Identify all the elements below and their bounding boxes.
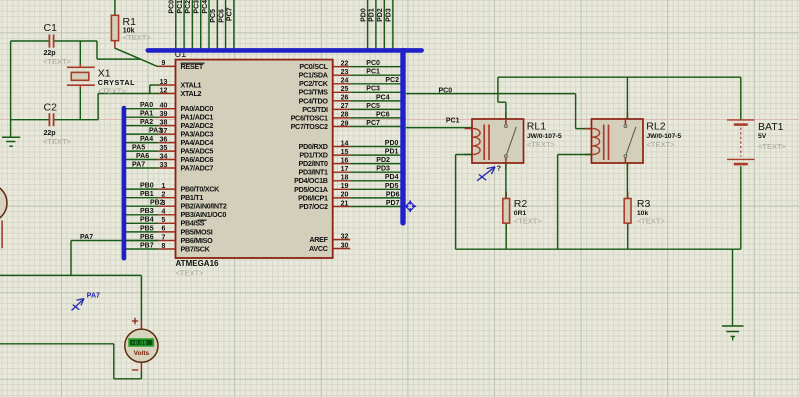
svg-text:BAT1: BAT1: [758, 121, 784, 133]
svg-text:14: 14: [341, 140, 349, 147]
svg-text:21: 21: [341, 200, 349, 207]
svg-text:29: 29: [341, 120, 349, 127]
microcontroller U1 ATMEGA16 body: [176, 60, 333, 258]
svg-text:PA4: PA4: [140, 136, 153, 143]
pin stubs (red) of RL1 and RL2: [465, 113, 628, 231]
svg-text:ATMEGA16: ATMEGA16: [176, 259, 220, 268]
svg-text:23: 23: [341, 69, 349, 76]
svg-text:PA7: PA7: [80, 234, 93, 241]
svg-text:30: 30: [341, 242, 349, 249]
capacitor C2: [49, 113, 53, 126]
svg-text:R3: R3: [637, 198, 651, 210]
wire R3 bottom to ground rail: [627, 223, 629, 249]
wires: PD0-PD7 from U1 to right bus: [350, 147, 403, 207]
svg-text:PB4: PB4: [140, 217, 154, 224]
svg-text:22p: 22p: [44, 130, 56, 137]
bus: horizontal port bus at top of U1: [148, 48, 422, 53]
svg-text:32: 32: [341, 233, 349, 240]
net labels PC0-PC7 (chip side): [366, 60, 399, 127]
wire net RESET/C1 top: [11, 41, 141, 59]
svg-text:PB5: PB5: [140, 225, 154, 232]
svg-text:1: 1: [162, 183, 166, 190]
svg-text:PC4: PC4: [202, 0, 209, 14]
wire ground stem (right): [732, 249, 734, 325]
overline for PB4/SS pin name: [198, 219, 207, 221]
svg-text:7: 7: [162, 234, 166, 241]
wire left vertical rail to ground: [10, 41, 12, 137]
svg-text:19: 19: [341, 183, 349, 190]
svg-text:Volts: Volts: [134, 350, 150, 357]
pin names: U1 left side: [181, 62, 227, 254]
voltmeter + - marks: [132, 318, 138, 370]
wire R2 bottom to ground rail: [505, 223, 507, 249]
svg-text:PD4: PD4: [385, 174, 399, 181]
wire voltmeter + lead from left edge: [0, 275, 141, 321]
wire cropped meter lead: [1, 220, 3, 248]
ground (left): [2, 137, 20, 146]
svg-text:<TEXT>: <TEXT>: [43, 137, 72, 146]
wires: PB0-PB7 from left bus to U1: [124, 189, 158, 249]
wire RL1 coil return to ground rail: [456, 155, 472, 250]
svg-text:15: 15: [341, 149, 349, 156]
svg-text:PC0: PC0: [439, 87, 453, 94]
svg-text:RL1: RL1: [527, 121, 546, 133]
wire net XTAL2/C2: [11, 94, 159, 120]
svg-text:<TEXT>: <TEXT>: [43, 57, 72, 66]
svg-text:PC2: PC2: [385, 77, 399, 84]
wire RL2 coil return to ground rail: [558, 155, 592, 250]
svg-text:PC1: PC1: [366, 69, 380, 76]
svg-text:PA6: PA6: [136, 153, 149, 160]
svg-text:<TEXT>: <TEXT>: [514, 216, 543, 225]
svg-text:13: 13: [160, 79, 168, 86]
svg-text:PC3: PC3: [194, 0, 201, 14]
wire diagonal R1 to RESET pin 9: [114, 48, 158, 66]
svg-text:27: 27: [341, 103, 349, 110]
svg-text:PA7: PA7: [87, 293, 100, 300]
wire RL1 switch to R2: [505, 163, 507, 199]
svg-text:<TEXT>: <TEXT>: [647, 140, 676, 149]
relay RL1 body: [472, 119, 524, 163]
wire R1 top lead: [114, 0, 116, 15]
pin numbers: U1 right side: [341, 61, 349, 250]
relay RL2 switch: [624, 119, 636, 163]
voltmeter terminal stubs: [140, 321, 142, 371]
relay RL1 switch: [505, 119, 517, 163]
wires: PC0-PC7 from U1 to right bus: [350, 67, 403, 127]
capacitor C1: [49, 35, 53, 48]
svg-text:PC0: PC0: [366, 60, 380, 67]
voltage probe arrow (?) at RL1: [477, 167, 495, 181]
wire bottom ground rail: [456, 248, 741, 250]
svg-text:36: 36: [160, 136, 168, 143]
svg-text:PC1: PC1: [177, 0, 184, 14]
svg-text:?: ?: [497, 164, 502, 173]
relay RL2 body: [592, 119, 644, 163]
svg-text:<TEXT>: <TEXT>: [176, 269, 205, 278]
svg-text:PD1: PD1: [385, 148, 399, 155]
svg-text:40: 40: [160, 103, 168, 110]
svg-text:12: 12: [160, 87, 168, 94]
wire RL2 common pin drop: [626, 77, 628, 119]
pins: U1 left side pin stubs: [158, 66, 175, 249]
svg-text:PD3: PD3: [376, 166, 390, 173]
svg-text:PD3: PD3: [386, 8, 393, 22]
svg-text:PC7: PC7: [227, 7, 234, 21]
svg-text:PC0: PC0: [169, 0, 176, 14]
svg-text:39: 39: [160, 111, 168, 118]
wire voltmeter - lead to left edge: [0, 344, 141, 379]
svg-text:8: 8: [162, 243, 166, 250]
resistor R3: [624, 199, 631, 224]
svg-text:PD0: PD0: [385, 140, 399, 147]
voltmeter LCD display: [128, 338, 154, 347]
svg-text:JW/0-107-5: JW/0-107-5: [527, 133, 562, 140]
svg-text:24: 24: [341, 78, 349, 85]
wire crystal bottom lead: [79, 89, 81, 120]
wire net PC0 from bus to RL2 coil: [406, 94, 592, 129]
wires: PD0-PD3 bus entries at top: [368, 0, 393, 50]
crystal X1: [67, 64, 95, 89]
resistor R1: [111, 15, 118, 40]
svg-text:PD1: PD1: [369, 8, 376, 22]
wire RL2 switch to R3: [626, 163, 628, 199]
svg-text:RL2: RL2: [646, 121, 665, 133]
wires: PA0-PA7 from left bus to U1: [124, 109, 158, 168]
svg-text:PA0: PA0: [140, 102, 153, 109]
voltmeter body: [125, 329, 158, 362]
svg-text:JW/0-107-5: JW/0-107-5: [647, 133, 682, 140]
svg-text:AREF: AREF: [309, 235, 328, 244]
wire XTAL1 branch: [150, 85, 159, 94]
net labels PA0-PA7: [132, 102, 162, 168]
svg-text:PB3: PB3: [140, 208, 154, 215]
svg-text:PC5: PC5: [366, 103, 380, 110]
svg-text:18: 18: [341, 175, 349, 182]
svg-text:26: 26: [341, 95, 349, 102]
svg-text:17: 17: [341, 166, 349, 173]
wire net PA7 from PB6 pin row to voltmeter: [71, 241, 158, 276]
svg-text:PC5: PC5: [210, 9, 217, 23]
svg-text:<TEXT>: <TEXT>: [637, 216, 666, 225]
bus: right vertical bus: [400, 50, 405, 222]
svg-text:PB7/SCK: PB7/SCK: [181, 244, 211, 253]
svg-text:PA1: PA1: [140, 111, 153, 118]
svg-text:PD6: PD6: [386, 191, 400, 198]
bus origin diamond marker: [404, 200, 416, 212]
relay RL1 coil: [473, 125, 489, 161]
net labels PB0-PB7: [140, 183, 164, 250]
ground (right): [722, 326, 744, 341]
wire RL1 common to +V rail (jog): [498, 77, 506, 119]
svg-text:PC6: PC6: [376, 111, 390, 118]
svg-text:PC6: PC6: [218, 9, 225, 23]
svg-text:PA7: PA7: [132, 161, 145, 168]
svg-text:22p: 22p: [44, 50, 56, 57]
relay RL2 coil: [592, 125, 608, 161]
svg-text:PB1: PB1: [140, 191, 154, 198]
voltage probe PA7: [72, 299, 85, 311]
svg-text:PD2: PD2: [376, 157, 390, 164]
svg-text:PD5: PD5: [385, 183, 399, 190]
svg-text:38: 38: [160, 119, 168, 126]
svg-text:5: 5: [162, 217, 166, 224]
svg-text:2: 2: [162, 191, 166, 198]
svg-text:XTAL2: XTAL2: [181, 89, 202, 98]
svg-text:PA5: PA5: [132, 144, 145, 151]
svg-text:R2: R2: [514, 198, 528, 210]
net labels PD0-PD7 (chip side): [376, 140, 399, 207]
svg-text:28: 28: [341, 112, 349, 119]
svg-text:+0.88: +0.88: [131, 341, 147, 347]
wires: PC0-PC7 bus entries at top: [176, 0, 234, 50]
svg-text:6: 6: [162, 226, 166, 233]
pin names: U1 right side: [291, 62, 329, 253]
svg-text:34: 34: [160, 153, 168, 160]
svg-text:PB2: PB2: [150, 200, 164, 207]
svg-text:AVCC: AVCC: [309, 244, 328, 253]
resistor R2: [503, 199, 510, 224]
svg-text:PC2: PC2: [185, 0, 192, 14]
svg-text:33: 33: [160, 162, 168, 169]
bus: left vertical bus (port A / port B): [122, 108, 127, 258]
svg-text:C2: C2: [44, 102, 58, 114]
svg-text:PC7: PC7: [366, 120, 380, 127]
svg-text:PD7: PD7: [386, 200, 400, 207]
svg-text:PD2: PD2: [377, 8, 384, 22]
svg-text:9: 9: [162, 60, 166, 67]
overline for RESET pin name: [181, 62, 205, 64]
svg-text:22: 22: [341, 61, 349, 68]
pins: U1 right side pin stubs: [333, 67, 351, 249]
wire net PC1 from bus to RL1 coil: [406, 127, 472, 129]
svg-text:PA7/ADC7: PA7/ADC7: [181, 163, 214, 172]
svg-text:PC7/TOSC2: PC7/TOSC2: [291, 122, 328, 131]
svg-text:C1: C1: [44, 22, 58, 34]
svg-text:<TEXT>: <TEXT>: [98, 87, 127, 96]
svg-text:PD0: PD0: [360, 8, 367, 22]
svg-text:35: 35: [160, 145, 168, 152]
svg-text:PC3: PC3: [366, 86, 380, 93]
svg-text:PC1: PC1: [446, 117, 460, 124]
svg-text:PC4: PC4: [376, 94, 390, 101]
wire crystal top lead: [79, 41, 81, 64]
wire battery top lead drop: [740, 77, 742, 120]
battery BAT1: [727, 120, 755, 164]
svg-text:4: 4: [162, 209, 166, 216]
svg-text:<TEXT>: <TEXT>: [758, 142, 787, 151]
svg-text:PA3: PA3: [149, 128, 162, 135]
svg-text:R1: R1: [123, 16, 137, 28]
svg-text:<TEXT>: <TEXT>: [123, 33, 152, 42]
svg-text:PB6: PB6: [140, 234, 154, 241]
svg-text:PB7: PB7: [140, 242, 154, 249]
svg-text:<TEXT>: <TEXT>: [527, 140, 556, 149]
svg-text:PD7/OC2: PD7/OC2: [299, 202, 328, 211]
wire +V rail to battery: [498, 76, 741, 78]
svg-text:20: 20: [341, 192, 349, 199]
svg-text:5V: 5V: [758, 133, 767, 140]
svg-text:16: 16: [341, 157, 349, 164]
svg-text:25: 25: [341, 86, 349, 93]
svg-text:PB0: PB0: [140, 183, 154, 190]
wire battery bottom lead: [740, 166, 742, 249]
partially cropped meter at left edge: [0, 184, 7, 222]
pin numbers: U1 left side: [160, 60, 168, 250]
svg-text:PA2: PA2: [140, 119, 153, 126]
